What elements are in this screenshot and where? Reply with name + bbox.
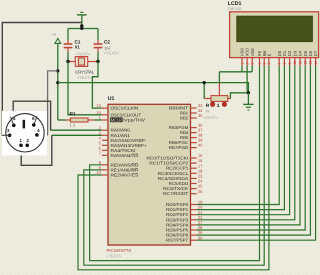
svg-text:3: 3 [251,63,255,65]
pin 16 RC1/T1OSI/CCP2 [191,162,197,164]
svg-text:RE2/AN7/C̅S̅: RE2/AN7/C̅S̅ [111,173,140,178]
wire VDD down to gnd node [247,66,248,93]
pin 20 RD1/PSP1 [191,209,197,211]
pin 3 RA1/AN1 [102,134,108,136]
svg-text:VEE: VEE [250,48,255,56]
pin 14 OSC2/CLKOUT [102,114,108,116]
svg-text:11: 11 [298,61,302,65]
wire RE2 to E [78,66,269,270]
pin 21 RD2/PSP2 [191,214,197,216]
pin 13 OSC1/CLKIN [102,107,108,109]
pin 37 RB4 [191,132,197,134]
pin 7 RA5/AN4/SS [102,154,108,156]
svg-text:35: 35 [198,113,203,118]
LCD pin 2 VDD [246,58,248,66]
svg-text:R: R [206,103,210,109]
svg-text:RB7/PGD: RB7/PGD [169,145,189,150]
svg-text:1: 1 [217,103,220,109]
pin 19 RD0/PSP0 [191,204,197,206]
pin 10 RE2/AN7/CS [102,174,108,176]
svg-text:10: 10 [96,170,101,175]
wire pin4 stub (dark) [37,134,48,136]
pin 8 RE0/AN5/RD [102,164,108,166]
pin 36 RB3/PGM [191,127,197,129]
node crystal-left [66,60,69,63]
svg-text:7: 7 [278,63,282,65]
svg-text:MCLR: MCLR [111,118,122,123]
svg-text:<TEXT>: <TEXT> [104,51,120,56]
svg-text:<TEXT>: <TEXT> [204,115,220,120]
crystal X1 [68,61,75,63]
svg-text:<TEXT>: <TEXT> [107,254,123,259]
pin 40 RB7/PGD [191,147,197,149]
svg-text:6: 6 [267,63,271,65]
pin 34 RB1 [191,112,197,114]
svg-text:26: 26 [198,189,203,194]
capacitor C2 [97,29,99,41]
connector pin 3 [8,134,12,138]
svg-text:+5: +5 [52,32,57,37]
LCD pin 12 D5 [304,58,306,66]
svg-text:9: 9 [288,63,292,65]
svg-text:R1: R1 [70,111,76,117]
svg-text:30: 30 [198,235,203,240]
svg-text:14: 14 [314,61,318,65]
svg-text:E: E [267,53,272,56]
pin 9 RE1/AN6/WR [102,169,108,171]
wire RD6 to D6 [197,66,311,235]
LCD pin 9 D2 [289,58,291,66]
wire RD2 to D2 [197,66,290,215]
pin 22 RD3/PSP3 [191,219,197,221]
pin 5 RA3/AN3/VREF+ [102,144,108,146]
svg-text:12: 12 [304,61,308,65]
wire pin1 to RA1 (dark) [21,135,52,165]
svg-text:13: 13 [309,61,313,65]
LCD pin 13 D6 [309,58,311,66]
wire RD0 to D0 [197,66,280,205]
pin 17 RC2/CCP1 [191,167,197,169]
svg-text:4: 4 [258,63,262,65]
pin 24 RC5/SDO [191,183,197,185]
svg-text:7: 7 [99,150,102,155]
LCD pin 14 D7 [315,58,317,66]
LCD pin 3 VEE [251,58,253,66]
wire RE1 to RW [84,66,264,265]
wire button-right to gnd node [230,93,248,99]
capacitor C1 [67,29,69,41]
svg-text:2: 2 [245,63,249,65]
pin 33 RB0/INT [191,107,197,109]
ground right [247,91,250,94]
svg-text:PIC16F877A: PIC16F877A [107,248,132,253]
svg-text:5: 5 [263,63,267,65]
svg-text:/Vpp/THV: /Vpp/THV [123,118,145,123]
svg-text:40: 40 [198,143,203,148]
wire RD3 to D3 [197,66,295,220]
connector pin 6 [32,123,36,127]
pin 35 RB2 [191,117,197,119]
svg-text:U1: U1 [108,96,115,102]
svg-text:1.2: 1.2 [70,122,76,127]
pin 38 RB5 [191,137,197,139]
LCD pin 11 D4 [299,58,301,66]
junction blob at gnd stem [80,24,83,27]
wire RD7 to D7 [197,66,316,240]
wire VEE drop [251,66,253,72]
svg-text:C2: C2 [104,40,110,45]
wire osc1 to pin13 [92,62,101,109]
wire button-left to rail [203,83,205,99]
pin 26 RC7/RX/DT [191,193,197,195]
wire osc top rail [68,28,98,30]
ground top [80,11,83,13]
pin 18 RC3/SCK/SCL [191,172,197,174]
wire RD4 to D4 [197,66,300,225]
LCD pin 10 D3 [294,58,296,66]
wire VSS to button stem [241,66,243,72]
chip U1 PIC16F877A [108,104,191,245]
pin 23 RC4/SDI/SDA [191,177,197,179]
connector mini-DIN-6 [2,111,47,155]
pin 15 RC0/T1OSO/T1CKI [191,157,197,159]
svg-text:RB2: RB2 [180,116,189,121]
LCD pin 6 E [268,58,270,66]
pin 25 RC6/TX/CK [191,188,197,190]
pin 39 RB6/PGC [191,142,197,144]
svg-text:<TEXT>: <TEXT> [76,52,92,57]
LCD pin 4 RS [259,58,261,66]
svg-text:LM016L: LM016L [228,6,243,11]
svg-text:8: 8 [283,63,287,65]
wire +5 rail [58,83,249,93]
LCD pin 7 D0 [278,58,280,66]
wire osc2 to pin14 [68,62,102,115]
LCD pin 8 D1 [283,58,285,66]
wire pin5 to RA0 (dark) [13,101,50,130]
svg-text:1nF: 1nF [104,45,111,50]
pin 4 RA2/AN2/VREF- [102,139,108,141]
LCD screen [237,16,313,41]
svg-text:OSC1/CLKIN: OSC1/CLKIN [111,106,139,111]
connector pin 1 [19,144,23,148]
svg-text:CRYSTAL: CRYSTAL [75,69,95,74]
connector pin 2 [25,144,29,148]
wire pin4-to-plus5 (gray) [48,71,58,135]
connector pin 4 [35,133,39,137]
svg-text:RD7/PSP7: RD7/PSP7 [166,238,189,243]
svg-text:RA5/AN4/S̅S̅: RA5/AN4/S̅S̅ [111,153,140,158]
pin 29 RD6/PSP6 [191,234,197,236]
svg-text:10: 10 [293,61,297,65]
svg-text:9k: 9k [206,109,210,113]
button [218,83,220,96]
wire RD5 to D5 [197,66,306,230]
svg-text:X1: X1 [75,45,81,50]
pin 6 RA4/T0CKI [102,149,108,151]
svg-text:D7: D7 [313,50,318,56]
svg-text:13: 13 [96,103,101,108]
LCD pin 1 VSS [241,58,243,66]
pin 2 RA0/AN0 [102,129,108,131]
connector pin 5 [12,124,16,128]
wire RE0 to RS [90,66,260,261]
pin 27 RD4/PSP4 [191,224,197,226]
wire gnd-to-pin3 (black) [2,23,82,136]
LCD pin 5 RW [263,58,265,66]
wire RD1 to D1 [197,66,285,210]
pin 1 MCLR/Vpp/THV [102,119,108,121]
svg-text:<TEXT>: <TEXT> [77,75,93,80]
pin 30 RD7/PSP7 [191,239,197,241]
wire +5 stem [57,43,59,120]
svg-text:1: 1 [240,63,244,65]
pin 28 RD5/PSP5 [191,229,197,231]
svg-text:RC7/RX/DT: RC7/RX/DT [163,191,188,196]
node crystal-right [96,60,99,63]
resistor R1 [58,119,66,121]
